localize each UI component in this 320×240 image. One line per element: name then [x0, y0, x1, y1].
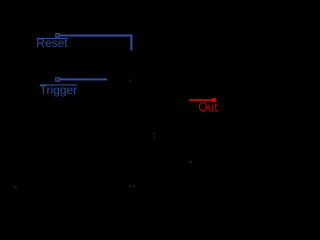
faint mark (discharge pin)	[189, 161, 192, 164]
faint mark (chip corner lower)	[153, 137, 155, 139]
wire Trigger horizontal	[60, 78, 108, 80]
pin square (Reset pin 4)	[56, 34, 59, 37]
pin square (Trigger pin 2)	[56, 78, 59, 81]
faint mark (ground right)	[133, 185, 135, 187]
faint pin mark (pin 1 area)	[14, 186, 17, 189]
wire Out horizontal	[189, 99, 213, 101]
wire Reset vertical	[130, 35, 132, 51]
faint pin mark (pin 6 end)	[129, 79, 131, 81]
net label RESET overline	[36, 38, 67, 39]
net label TRIGGER overline	[40, 84, 78, 85]
svg-text:Out: Out	[198, 100, 218, 114]
faint mark (ground left)	[129, 185, 131, 187]
junction dot Out	[212, 98, 217, 103]
faint mark (chip corner upper)	[153, 132, 155, 134]
wire Reset horizontal	[60, 35, 133, 37]
svg-text:Reset: Reset	[36, 36, 68, 50]
svg-text:Trigger: Trigger	[40, 83, 78, 97]
